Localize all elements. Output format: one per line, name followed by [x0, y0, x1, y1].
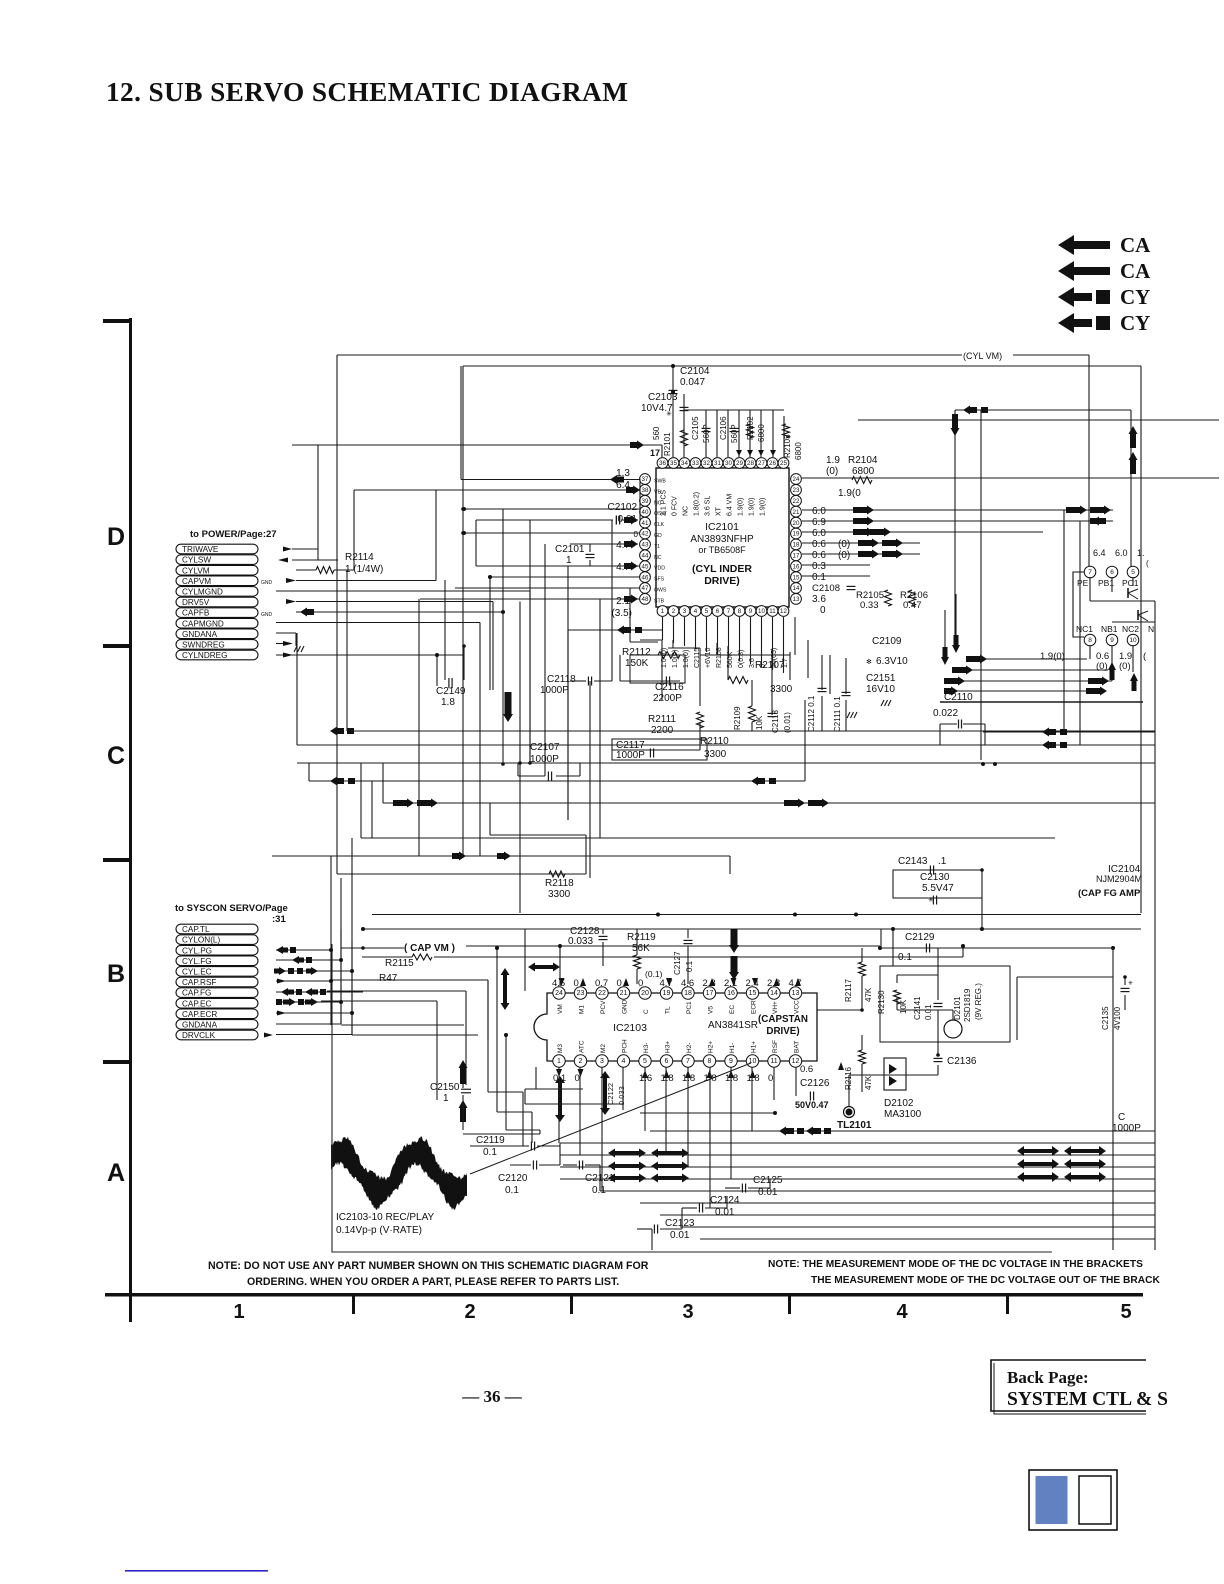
wire GD row: [464, 532, 640, 534]
svg-text:C2122: C2122: [606, 1083, 615, 1105]
svg-text:0: 0: [617, 978, 622, 989]
svg-text:PC1: PC1: [686, 1001, 693, 1014]
IC2103 bottom pins 1-12: [553, 1055, 565, 1067]
wire CYLMGND: [276, 590, 530, 592]
svg-text:48: 48: [642, 596, 649, 603]
svg-text:17: 17: [793, 553, 800, 560]
svg-text:IC2103: IC2103: [613, 1022, 647, 1034]
right verticals to arrow rows: [1063, 510, 1065, 732]
svg-text:M3: M3: [557, 1044, 564, 1053]
svg-text:STB: STB: [654, 598, 665, 604]
frame tick D/C: [103, 644, 132, 648]
svg-text:NB1: NB1: [1101, 624, 1118, 634]
svg-text:TL: TL: [665, 1006, 672, 1014]
svg-text:18: 18: [684, 990, 692, 997]
svg-text:C: C: [1118, 1112, 1125, 1123]
svg-text:0: 0: [768, 1073, 773, 1084]
extra midband verticals: [794, 617, 796, 655]
svg-text:19: 19: [663, 990, 671, 997]
svg-text:CAPVM: CAPVM: [182, 577, 211, 586]
svg-text:GND: GND: [261, 612, 273, 618]
svg-text:SWB: SWB: [654, 479, 666, 485]
svg-text:56K: 56K: [632, 943, 650, 954]
svg-text:GND: GND: [261, 580, 273, 586]
connector pill CAP.EC: [176, 998, 258, 1008]
connector pill TRIWAVE: [176, 544, 258, 554]
wire bus y838: [361, 837, 1055, 839]
svg-text:6.4: 6.4: [1093, 548, 1106, 558]
svg-text:NC1: NC1: [1076, 624, 1093, 634]
pill group2 wires and arrow clusters: [276, 949, 331, 951]
big arrows near IC2103 left: [501, 968, 510, 1010]
svg-text:1: 1: [557, 1058, 561, 1065]
svg-text:0: 0: [574, 978, 579, 989]
svg-text:4: 4: [622, 1058, 626, 1065]
wire CAPVM: [296, 580, 436, 582]
svg-text:VCC: VCC: [794, 1000, 801, 1014]
black up arrows x1133: [1129, 426, 1138, 448]
svg-text:R2115: R2115: [385, 958, 414, 969]
svg-text:IC2103-10 REC/PLAY: IC2103-10 REC/PLAY: [336, 1212, 435, 1223]
svg-text:30: 30: [725, 460, 732, 467]
svg-text:C2135: C2135: [1101, 1006, 1110, 1030]
svg-text:9: 9: [749, 608, 753, 615]
IC2102 transistor a: [1128, 589, 1138, 593]
svg-text:R2130: R2130: [877, 990, 886, 1014]
svg-text:0: 0: [820, 605, 826, 616]
svg-text:C: C: [107, 742, 125, 770]
dbl arrows bottom mid: [608, 1149, 646, 1158]
IC2102 pins 7 6 5: [1084, 566, 1096, 578]
IC2101 bottom pins 1-12: [657, 606, 668, 617]
svg-text:47K: 47K: [864, 987, 873, 1002]
svg-text:(0): (0): [838, 539, 850, 550]
svg-text:C2111 0.1: C2111 0.1: [833, 696, 842, 732]
svg-text:1.9(0): 1.9(0): [749, 498, 756, 516]
waveform box: [332, 944, 1052, 1252]
resistor R2115: [412, 954, 432, 960]
svg-text:VDD: VDD: [654, 566, 665, 572]
back page box: [991, 1360, 1146, 1411]
wire right y410: [955, 409, 1131, 411]
svg-text:34: 34: [681, 460, 688, 467]
svg-text:NC: NC: [654, 500, 662, 506]
svg-text:NC: NC: [654, 555, 662, 561]
svg-text:CY: CY: [1120, 311, 1150, 335]
IC2103 bottom small arrows: [556, 1069, 562, 1077]
svg-text:28: 28: [747, 460, 754, 467]
svg-text:0.033: 0.033: [568, 936, 593, 947]
svg-text:XT: XT: [716, 506, 723, 516]
big down arrow x508: [503, 692, 513, 722]
IC2102 box edge: [1073, 572, 1084, 637]
svg-text:N: N: [1148, 624, 1154, 634]
svg-text:C2150: C2150: [430, 1082, 460, 1093]
svg-text:10K: 10K: [899, 999, 908, 1014]
svg-text:0.1: 0.1: [483, 1147, 497, 1158]
svg-text:15: 15: [793, 574, 800, 581]
svg-text:CA: CA: [1120, 233, 1151, 257]
svg-text:29: 29: [736, 460, 743, 467]
svg-text:8: 8: [708, 1058, 712, 1065]
svg-text:R2116: R2116: [844, 1066, 853, 1090]
svg-text:(9V REG.): (9V REG.): [974, 983, 983, 1020]
svg-text:0.6: 0.6: [812, 539, 826, 550]
wire CYLVM R2114: [296, 569, 316, 571]
svg-text:CAP.EC: CAP.EC: [182, 999, 212, 1008]
svg-text:— 36 —: — 36 —: [461, 1387, 523, 1406]
svg-text:47K: 47K: [864, 1075, 873, 1090]
svg-text:0: 0: [638, 978, 643, 989]
svg-text:16: 16: [727, 990, 735, 997]
svg-text:R2112: R2112: [622, 647, 651, 658]
svg-text:C2130: C2130: [920, 872, 950, 883]
svg-text:C2129: C2129: [905, 932, 935, 943]
frame bottom tick 4/5: [1006, 1295, 1009, 1314]
arrows under IC2103: [555, 1076, 565, 1122]
wire vert x463: [462, 366, 464, 856]
flow arrow CAP solid 2: [1058, 261, 1110, 281]
svg-text:5: 5: [1120, 1301, 1131, 1323]
svg-text:C2149: C2149: [436, 686, 466, 697]
svg-text:0.3: 0.3: [812, 561, 826, 572]
cap C2136: [934, 1057, 943, 1059]
svg-text:25: 25: [780, 460, 787, 467]
svg-text:9: 9: [729, 1058, 733, 1065]
connector pill DRVCLK: [176, 1030, 258, 1040]
svg-text:NC2: NC2: [1122, 624, 1139, 634]
svg-text:EC: EC: [729, 1005, 736, 1014]
diagonal pointer line: [470, 1063, 751, 1174]
svg-text:Back Page:: Back Page:: [1007, 1368, 1089, 1387]
svg-text:6800: 6800: [794, 442, 803, 460]
svg-text:42: 42: [642, 531, 649, 538]
svg-text:13: 13: [793, 596, 800, 603]
wires 9V reg area: [892, 929, 894, 966]
svg-text:5: 5: [1131, 569, 1135, 576]
wire GNDANA grp1: [276, 632, 296, 634]
svg-text:(0): (0): [838, 550, 850, 561]
wire CYLSW arrowhead: [278, 558, 288, 563]
svg-text:PCV: PCV: [600, 1000, 607, 1014]
connector pill CYLMGND: [176, 587, 258, 597]
down arrows right mid: [952, 635, 960, 653]
svg-text:H1-: H1-: [729, 1043, 736, 1053]
svg-text:4V100: 4V100: [1113, 1006, 1122, 1030]
svg-text:31: 31: [714, 460, 721, 467]
svg-text:R2118: R2118: [545, 878, 574, 889]
dbl arrows bottom right: [1017, 1146, 1059, 1156]
svg-text:OSW: OSW: [654, 511, 666, 517]
svg-text:(CAP FG AMP: (CAP FG AMP: [1078, 888, 1141, 899]
cap C2102: [615, 516, 617, 525]
pill group2 verticals: [330, 856, 332, 1025]
svg-text:C2102: C2102: [608, 502, 638, 513]
wire OWS: [455, 587, 640, 589]
frame tick C/B: [103, 858, 132, 862]
vertical x1155: [1154, 601, 1156, 1250]
IC2101 bottom pin drops: [662, 617, 664, 640]
svg-text:22: 22: [793, 498, 800, 505]
wire top CYL VM: [337, 354, 962, 356]
wires around IC2103: [524, 929, 526, 991]
svg-text:0.01: 0.01: [758, 1187, 778, 1198]
cap C2127: [684, 939, 693, 941]
svg-text:11: 11: [769, 608, 776, 615]
wire CLK C2102: [476, 519, 613, 521]
svg-text:C2108: C2108: [812, 583, 840, 594]
svg-text:VM: VM: [557, 1004, 564, 1014]
svg-text:10K: 10K: [755, 715, 764, 730]
svg-text:(0.1): (0.1): [645, 969, 663, 979]
wire y948: [880, 947, 1113, 949]
svg-text:CAPMGND: CAPMGND: [182, 619, 224, 628]
svg-text:6.3V10: 6.3V10: [876, 656, 908, 667]
connector pill CAPMGND: [176, 618, 258, 628]
svg-text:DRIVE): DRIVE): [766, 1026, 799, 1037]
svg-text:R2114: R2114: [345, 552, 374, 563]
svg-text:23: 23: [577, 990, 585, 997]
svg-text:1.8: 1.8: [441, 697, 455, 708]
svg-text:C2125: C2125: [753, 1175, 783, 1186]
svg-text:or TB6508F: or TB6508F: [698, 545, 746, 555]
wire right y691: [951, 690, 1102, 692]
svg-text:0.01: 0.01: [715, 1207, 735, 1218]
frame bottom tick 2/3: [570, 1295, 573, 1314]
svg-text:D2102: D2102: [884, 1098, 914, 1109]
svg-text:27: 27: [758, 460, 765, 467]
svg-text:40: 40: [642, 509, 649, 516]
svg-text:AN3893NFHP: AN3893NFHP: [690, 534, 754, 545]
wire bus y856: [272, 855, 730, 857]
wire CAP VM lines: [341, 947, 404, 949]
9V REG block: [880, 966, 1010, 1042]
svg-text:2: 2: [672, 608, 676, 615]
svg-text:0.1: 0.1: [812, 572, 826, 583]
svg-text:C2106: C2106: [719, 416, 728, 440]
svg-text:47: 47: [642, 585, 649, 592]
svg-text:NJM2904M: NJM2904M: [1096, 874, 1142, 884]
svg-text:3.6 SL: 3.6 SL: [705, 496, 712, 516]
connector pill GNDANA: [176, 1020, 258, 1030]
frame bottom border: [105, 1293, 1143, 1297]
connector pill CYLON(L): [176, 935, 258, 945]
svg-text:36: 36: [659, 460, 666, 467]
svg-text:H3+: H3+: [665, 1041, 672, 1053]
svg-text:C2127: C2127: [673, 951, 682, 975]
svg-text:21: 21: [793, 509, 800, 516]
svg-text:R2104: R2104: [848, 455, 878, 466]
svg-text:44: 44: [642, 553, 649, 560]
svg-text:.1: .1: [938, 856, 947, 867]
svg-text:CA: CA: [1120, 259, 1151, 283]
verticals bottom mid: [559, 1143, 561, 1165]
box lines under IC2103: [525, 1088, 583, 1090]
svg-text:17: 17: [650, 448, 660, 458]
svg-text:6: 6: [716, 608, 720, 615]
verticals right mid: [944, 610, 946, 647]
svg-text:15: 15: [749, 990, 757, 997]
IC2101 left pins 37-48: [640, 474, 651, 485]
svg-text:CYLVM: CYLVM: [182, 566, 210, 575]
svg-text:C2105: C2105: [691, 416, 700, 440]
svg-text:5.5V47: 5.5V47: [922, 883, 954, 894]
connector pill DRV5V: [176, 597, 258, 607]
svg-text:NOTE: DO NOT USE ANY PART NUMB: NOTE: DO NOT USE ANY PART NUMBER SHOWN O…: [208, 1260, 649, 1272]
verticals center-low: [519, 602, 521, 914]
svg-text:3: 3: [683, 608, 687, 615]
svg-text:MA3100: MA3100: [884, 1109, 922, 1120]
svg-text:R2109: R2109: [733, 706, 742, 730]
svg-text:1.8(0.2): 1.8(0.2): [694, 492, 701, 516]
svg-text:6800: 6800: [852, 466, 875, 477]
wire right y543-576: [802, 542, 920, 544]
verticals right top: [954, 410, 956, 646]
svg-text:PCH: PCH: [622, 1039, 629, 1053]
svg-text:CYL.EC: CYL.EC: [182, 968, 212, 977]
wire TRIWAVE to pin36: [292, 444, 662, 446]
svg-text:(0): (0): [826, 466, 838, 477]
svg-text:CYL.FG: CYL.FG: [182, 957, 212, 966]
svg-text:C2136: C2136: [947, 1056, 977, 1067]
svg-text:8: 8: [738, 608, 742, 615]
svg-text:10: 10: [749, 1058, 757, 1065]
svg-text:OWS: OWS: [654, 588, 667, 594]
svg-text:2SD1819: 2SD1819: [963, 988, 972, 1022]
op IC2101 body: [656, 468, 789, 607]
svg-text:12: 12: [780, 608, 787, 615]
svg-text:1: 1: [661, 608, 665, 615]
svg-text:3300: 3300: [704, 749, 727, 760]
svg-text:2200P: 2200P: [653, 693, 682, 704]
cap C2108 sym: [847, 585, 856, 587]
wire vert x337: [336, 355, 338, 874]
svg-text:R2111: R2111: [648, 714, 676, 725]
svg-text:32: 32: [703, 460, 710, 467]
svg-text:3300: 3300: [770, 684, 793, 695]
svg-text:0.01: 0.01: [670, 1230, 690, 1241]
svg-text:B: B: [107, 960, 125, 988]
junction dots: [461, 507, 465, 511]
svg-text:1: 1: [233, 1301, 244, 1323]
svg-text:SFS: SFS: [654, 577, 665, 583]
svg-text:1.: 1.: [1137, 548, 1145, 558]
svg-text:12: 12: [792, 1058, 800, 1065]
page corner squares: [1029, 1470, 1117, 1530]
svg-text:0.022: 0.022: [933, 708, 958, 719]
svg-text:50V0.47: 50V0.47: [795, 1100, 829, 1110]
svg-text:M1: M1: [579, 1005, 586, 1014]
drop wires to mid components: [661, 640, 663, 700]
wire CYLNDREG: [276, 654, 464, 656]
svg-text:26: 26: [769, 460, 776, 467]
wire pin38 6.4: [436, 489, 640, 491]
svg-text:CAP.RSF: CAP.RSF: [182, 978, 216, 987]
svg-text:C2143: C2143: [898, 856, 928, 867]
connector pill CYL.FG: [176, 956, 258, 966]
svg-text:0.33: 0.33: [860, 600, 879, 611]
svg-text:TRIWAVE: TRIWAVE: [182, 545, 219, 554]
svg-text:CY: CY: [1120, 285, 1150, 309]
connector pill GNDANA: [176, 629, 258, 639]
svg-text:VH+: VH+: [772, 1001, 779, 1014]
wire right y670: [970, 669, 1108, 671]
connector pill CYLVM: [176, 565, 258, 575]
svg-text:R2107: R2107: [755, 660, 785, 671]
frame tick B/A: [103, 1060, 132, 1064]
connector pill CAP.ECR: [176, 1009, 258, 1019]
svg-text:4: 4: [694, 608, 698, 615]
svg-text:GND: GND: [622, 999, 629, 1014]
svg-text:(0): (0): [1119, 661, 1131, 672]
ground mid1: [847, 712, 850, 718]
wire STB: [420, 598, 640, 600]
connector pill CAP.TL: [176, 924, 258, 934]
connector pill CYLSW: [176, 555, 258, 565]
svg-text:IC2101: IC2101: [705, 521, 739, 533]
svg-text:1.9: 1.9: [826, 455, 840, 466]
svg-text:AN3841SR: AN3841SR: [708, 1020, 758, 1031]
svg-text:CYLMGND: CYLMGND: [182, 588, 223, 597]
cap C2117: [612, 739, 707, 760]
svg-text:41: 41: [642, 520, 649, 527]
IC2101 top pins 36-25: [657, 458, 668, 469]
svg-text:PE: PE: [1077, 578, 1089, 588]
wire R47 y980: [331, 979, 488, 981]
staircase wires to bottom caps: [487, 981, 489, 1092]
svg-text:1000P: 1000P: [540, 685, 569, 696]
svg-text:ATC: ATC: [579, 1040, 586, 1053]
svg-text:5: 5: [705, 608, 709, 615]
svg-text:to SYSCON SERVO/Page: to SYSCON SERVO/Page: [175, 903, 288, 914]
black down arrow x955: [951, 414, 960, 436]
wire right y702: [940, 701, 1143, 703]
svg-text:H2-: H2-: [686, 1043, 693, 1053]
svg-text:3: 3: [600, 1058, 604, 1065]
svg-text:23: 23: [793, 487, 800, 494]
svg-text:CAP.TL: CAP.TL: [182, 925, 210, 934]
svg-text:SWNDREG: SWNDREG: [182, 641, 225, 650]
IC2102 transistor b: [1138, 611, 1148, 615]
svg-text:37: 37: [642, 476, 649, 483]
svg-text:1: 1: [443, 1093, 449, 1104]
svg-text:C: C: [643, 1009, 650, 1014]
svg-text:45: 45: [642, 563, 649, 570]
svg-text:C2126: C2126: [800, 1078, 830, 1089]
connector pill CAPFB: [176, 608, 258, 618]
wire bus y781: [309, 780, 805, 782]
svg-text:C2151: C2151: [866, 673, 896, 684]
svg-text:RSF: RSF: [772, 1040, 779, 1053]
arrows y732 745 right: [983, 731, 1155, 733]
svg-text:1.9(0): 1.9(0): [760, 498, 767, 516]
resistor R2118 wire: [337, 873, 586, 875]
vertical drops IC2103 bottom: [558, 1067, 560, 1143]
svg-text:CYLNDREG: CYLNDREG: [182, 651, 228, 660]
svg-text:43: 43: [642, 542, 649, 549]
svg-text:6.4 VM: 6.4 VM: [727, 494, 734, 516]
svg-text:0.6: 0.6: [800, 1064, 813, 1075]
svg-text:GD: GD: [654, 533, 662, 539]
connector pill CAP.FG: [176, 988, 258, 998]
pin1 arrow cluster: [568, 629, 662, 631]
connector pill CYL.EC: [176, 967, 258, 977]
svg-text:0.6: 0.6: [812, 550, 826, 561]
svg-text:(3.5): (3.5): [611, 608, 632, 619]
wire CAPMGND: [276, 622, 480, 624]
svg-text:CLK: CLK: [654, 522, 665, 528]
svg-text:(CAPSTAN: (CAPSTAN: [758, 1014, 808, 1025]
